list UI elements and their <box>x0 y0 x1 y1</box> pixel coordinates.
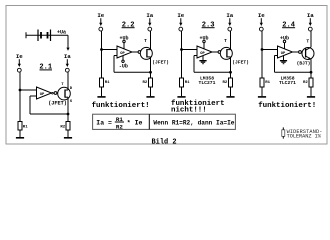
svg-text:R2: R2 <box>303 81 308 85</box>
svg-text:Ia =: Ia = <box>96 119 112 126</box>
svg-text:Ia: Ia <box>226 12 233 19</box>
svg-text:Bild 2: Bild 2 <box>152 138 177 146</box>
svg-text:Ie: Ie <box>177 12 184 19</box>
svg-text:(JFET): (JFET) <box>48 100 67 106</box>
svg-text:Ie: Ie <box>258 12 265 19</box>
svg-text:R2: R2 <box>60 126 65 130</box>
svg-text:OP: OP <box>120 52 125 56</box>
svg-text:* Ie: * Ie <box>127 119 143 126</box>
svg-text:-Ub: -Ub <box>119 63 128 69</box>
svg-text:TLC271: TLC271 <box>279 80 296 86</box>
svg-text:(BJT): (BJT) <box>297 61 311 67</box>
svg-text:R2: R2 <box>142 81 147 85</box>
svg-text:Ie: Ie <box>16 53 23 60</box>
svg-text:TLC271: TLC271 <box>199 80 216 86</box>
svg-text:(JFET): (JFET) <box>152 59 169 65</box>
svg-text:Ia: Ia <box>146 12 153 19</box>
svg-text:Wenn R1=R2, dann Ia=Ie: Wenn R1=R2, dann Ia=Ie <box>153 119 234 126</box>
svg-text:R1: R1 <box>23 126 28 130</box>
svg-text:R2: R2 <box>222 81 227 85</box>
svg-text:T: T <box>144 38 147 44</box>
svg-text:R1: R1 <box>105 81 110 85</box>
svg-text:(JFET): (JFET) <box>232 59 249 65</box>
svg-text:TOLERANZ 1%: TOLERANZ 1% <box>287 133 322 139</box>
svg-text:funktioniert!: funktioniert! <box>258 102 316 110</box>
svg-text:funktioniert!: funktioniert! <box>92 102 150 110</box>
svg-text:Ie: Ie <box>97 12 104 19</box>
svg-text:OP: OP <box>40 93 45 97</box>
svg-text:OP: OP <box>281 52 286 56</box>
svg-text:+Ua: +Ua <box>57 29 66 35</box>
svg-text:OP: OP <box>200 52 205 56</box>
svg-text:nicht!!!: nicht!!! <box>171 107 207 115</box>
svg-text:T: T <box>306 39 309 45</box>
svg-text:Ia: Ia <box>307 12 314 19</box>
svg-text:Ia: Ia <box>64 53 71 60</box>
svg-text:R1: R1 <box>265 81 270 85</box>
svg-text:R1: R1 <box>185 81 190 85</box>
svg-text:T: T <box>224 38 227 44</box>
svg-text:R2: R2 <box>116 123 123 130</box>
